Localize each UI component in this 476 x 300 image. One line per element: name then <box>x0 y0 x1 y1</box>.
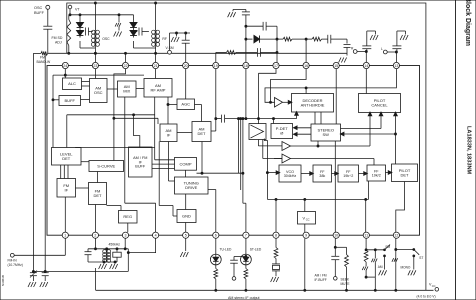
wire AM IF bottom to TUNING DRIVE <box>169 142 175 182</box>
wire AM OSC to AM MIX <box>107 88 118 90</box>
svg-text:14: 14 <box>364 64 368 68</box>
svg-text:24: 24 <box>63 64 67 68</box>
wire varactor supply rail <box>70 14 134 16</box>
pin 6 <box>213 232 219 238</box>
wire pin17 route to quad column <box>259 69 277 119</box>
wire pin4 internal <box>125 203 156 232</box>
svg-text:13: 13 <box>394 64 398 68</box>
block FM IF <box>57 179 76 198</box>
svg-text:DET: DET <box>62 156 71 161</box>
wire limiter to amp A2 <box>258 140 282 146</box>
capacitor at OSC BUFF <box>43 9 52 53</box>
svg-text:Block Diagram: Block Diagram <box>464 0 471 46</box>
wire FM DET to REG <box>107 206 122 211</box>
pin 9 <box>303 232 309 238</box>
block AM DET <box>192 122 211 142</box>
svg-text:S-CURVE: S-CURVE <box>97 163 115 168</box>
block P-DET <box>271 124 293 139</box>
wire S-CURVE to FM DET <box>97 172 99 183</box>
capacitor pin18 to pin17 chain <box>246 22 278 63</box>
wire stereo sw right feed 2 <box>341 132 397 135</box>
capacitor branch AM <box>366 250 383 291</box>
OSC BUFF terminal <box>34 5 50 15</box>
TU-LED <box>210 238 232 291</box>
wire LEVEL DET to FM IF triple <box>61 165 68 179</box>
wire decoder top feed <box>305 87 307 94</box>
svg-text:SEEK: SEEK <box>341 278 350 282</box>
svg-text:(4.0 to 8.0 V): (4.0 to 8.0 V) <box>417 294 436 298</box>
block AM IF <box>160 124 177 142</box>
svg-text:RF AMP: RF AMP <box>151 87 166 92</box>
wire pin21 to AM RF AMP <box>155 69 157 79</box>
450kHz detector coil T3 <box>103 248 111 263</box>
svg-text:6: 6 <box>215 234 217 238</box>
svg-text:10: 10 <box>334 234 338 238</box>
wire decoder to stereo sw <box>315 112 321 124</box>
svg-text:IF: IF <box>167 132 171 137</box>
pin 1 <box>62 232 68 238</box>
svg-text:19k/2: 19k/2 <box>372 173 381 177</box>
trimmer capacitor FM-IN <box>28 271 37 288</box>
svg-text:DET: DET <box>401 172 410 177</box>
wire pin9 to bus <box>304 238 306 291</box>
pin 13 <box>393 62 399 68</box>
svg-text:CANCEL: CANCEL <box>371 103 388 108</box>
VT terminal <box>68 5 80 16</box>
wire FF3 bottom <box>368 181 370 199</box>
svg-text:20: 20 <box>184 64 188 68</box>
capacitor stereo IF tap <box>230 256 247 281</box>
svg-text:L: L <box>381 47 383 51</box>
svg-text:9: 9 <box>305 234 307 238</box>
svg-text:BUFF: BUFF <box>34 11 45 15</box>
svg-text:TU-LED: TU-LED <box>220 248 233 252</box>
wire pin16 route to amp A1 <box>271 69 307 103</box>
block AM MIX <box>118 81 137 97</box>
svg-text:ALC: ALC <box>68 81 76 86</box>
pin 12 <box>393 232 399 238</box>
svg-text:AM: AM <box>378 265 383 269</box>
left margin tiny vertical text <box>1 275 5 286</box>
wire AGC to AM DET <box>195 105 202 122</box>
block GND <box>177 210 196 223</box>
wire P-DET top feed <box>273 119 275 124</box>
block TUNING DRIVE <box>175 177 209 194</box>
block LEVEL DET <box>52 148 82 166</box>
wire AM IF left feed <box>113 117 158 124</box>
wire pin11 internal <box>365 199 367 232</box>
svg-text:BUFF: BUFF <box>65 98 76 103</box>
svg-text:16: 16 <box>304 64 308 68</box>
svg-text:450kHz: 450kHz <box>109 242 121 246</box>
Vcc terminal bottom right <box>417 283 439 299</box>
block S-CURVE <box>89 161 124 172</box>
block AM RF AMP <box>144 79 172 98</box>
block VCC <box>298 212 316 225</box>
svg-text:AM / FM: AM / FM <box>315 274 327 278</box>
FM SD ADJ potentiometer <box>52 15 71 54</box>
block AGC <box>177 99 195 110</box>
wire pin22 to S-CURVE long route <box>114 69 126 161</box>
capacitor pin19 chain to pin17 <box>257 48 277 57</box>
wire quad box feed <box>258 119 260 124</box>
svg-text:BUFF: BUFF <box>135 165 146 169</box>
wire feedback into COMP <box>155 148 175 160</box>
svg-text:23: 23 <box>93 64 97 68</box>
coupling capacitor FM RF tank <box>133 28 149 36</box>
svg-text:VT: VT <box>75 8 80 12</box>
block REG <box>119 211 138 224</box>
varactor diodes D3 D4 (FM RF) <box>130 15 137 48</box>
wire IF BUFF to COMP upper <box>152 163 175 165</box>
resistor pin16 to cap <box>306 37 321 41</box>
wire FM DET to pin2 <box>95 205 97 233</box>
wire AM DET bottom drop <box>201 142 203 175</box>
trimmer capacitor and ground near OSC <box>114 15 122 37</box>
svg-text:4: 4 <box>155 234 157 238</box>
svg-text:5: 5 <box>185 234 187 238</box>
wire IF BUFF top dogleg <box>133 114 140 147</box>
wire VCC box feeds <box>304 199 306 232</box>
pin 10 <box>333 232 339 238</box>
wire pin19 column <box>211 69 217 131</box>
svg-text:FM: FM <box>40 55 45 59</box>
SEEK MUTE resistor <box>335 247 350 291</box>
wire pin4 external route <box>127 238 155 271</box>
svg-text:FM-IN: FM-IN <box>8 258 18 262</box>
wire pin22 stub <box>125 53 127 62</box>
wire ALC to AM OSC <box>82 82 90 87</box>
wire pin11 down <box>365 238 367 250</box>
wire pin13 route audio <box>265 69 396 104</box>
capacitor FM-IN <box>40 271 49 287</box>
coupling capacitor FM OSC tank <box>79 28 93 36</box>
capacitor V-SM to pin 20 <box>182 33 190 62</box>
svg-text:SW: SW <box>323 132 330 137</box>
pin 17 <box>273 62 279 68</box>
svg-text:LA1833N, 1833NM: LA1833N, 1833NM <box>466 126 472 175</box>
block PILOT CANCEL <box>359 94 401 113</box>
wire GND box to pin5 <box>185 223 187 233</box>
svg-text:IF-BUFF: IF-BUFF <box>315 278 327 282</box>
wire BUFF left to level det column <box>52 75 59 147</box>
AM stereo IF output label <box>228 296 260 300</box>
L output terminal <box>381 47 397 63</box>
wire vertical x240 <box>240 118 242 190</box>
wire AM MIX to AM RF AMP <box>136 88 144 90</box>
capacitor branch pin12 <box>392 258 398 262</box>
svg-text:OSC: OSC <box>102 37 110 41</box>
decoder drive amp A3 <box>282 154 291 163</box>
wire TUNING DRIVE to pin6 <box>208 190 216 233</box>
ground below pin5 <box>180 238 188 257</box>
block COMP <box>175 158 197 171</box>
wire AM IF to AM DET <box>177 132 192 134</box>
pin 19 <box>213 62 219 68</box>
block ALC <box>63 78 82 90</box>
FM RF coil T2 <box>152 2 167 62</box>
switch rail pin11 <box>366 249 384 251</box>
pin 23 <box>92 62 98 68</box>
svg-text:AGC: AGC <box>181 102 190 107</box>
svg-text:3: 3 <box>125 234 127 238</box>
svg-text:FM SD: FM SD <box>52 36 63 40</box>
svg-text:BAND-W: BAND-W <box>37 60 52 64</box>
wire COMP to TUNING DRIVE <box>185 170 187 177</box>
svg-text:18: 18 <box>244 64 248 68</box>
wire pin24 to ALC <box>64 69 66 78</box>
wire pin12 down <box>395 238 397 291</box>
resistor pin19 top chain <box>216 51 257 63</box>
wire FF1 to FF2 <box>332 172 339 175</box>
output capacitor L with ground <box>392 31 408 52</box>
wire FM IF to pin1 <box>64 197 66 232</box>
svg-text:N3083B: N3083B <box>1 275 5 286</box>
resistor branch pin11 <box>362 250 368 278</box>
svg-text:19: 19 <box>214 64 218 68</box>
svg-text:7: 7 <box>245 234 247 238</box>
svg-text:REG: REG <box>123 214 132 219</box>
wire OSC tank bottom <box>80 47 95 49</box>
capacitor to de-emphasis node <box>322 35 348 44</box>
pin 11 <box>363 232 369 238</box>
pin 21 <box>153 62 159 68</box>
block AM/FM IF BUFF <box>129 147 153 177</box>
svg-text:DRIVE: DRIVE <box>185 185 198 190</box>
svg-text:RF: RF <box>162 37 167 41</box>
wire pin20 to AGC <box>185 69 187 99</box>
pin 24 <box>62 62 68 68</box>
svg-text:IF: IF <box>64 187 68 192</box>
FM BAND-W resistor <box>37 52 52 64</box>
ST-LED <box>241 238 262 291</box>
block FM DET <box>89 183 107 205</box>
450kHz label <box>109 242 121 246</box>
wire amp A3 long run <box>291 159 375 166</box>
wire stereo sw to pin10 <box>334 141 336 232</box>
svg-text:ANTI-BIRDIE: ANTI-BIRDIE <box>301 102 325 107</box>
svg-text:MUTE: MUTE <box>341 282 350 286</box>
wire TUNING DRIVE to GND box <box>185 194 187 210</box>
wire AM MIX down long vertical <box>124 97 126 203</box>
wire AM RF AMP to AGC and AM IF <box>167 97 177 124</box>
capacitor and ground at pin 15 node <box>339 39 351 62</box>
svg-text:CC: CC <box>306 218 310 222</box>
wire vertical x238 <box>238 118 240 174</box>
wire pin8 internal <box>275 199 277 232</box>
FM-IN terminal <box>8 238 66 266</box>
wire pin10 down <box>334 238 336 256</box>
svg-text:AM stereo IF output: AM stereo IF output <box>228 296 260 300</box>
wire FM BAND-W left drop <box>33 53 41 271</box>
wire pin14 to pilot cancel <box>365 69 367 94</box>
wire PLL bottom run <box>267 198 368 200</box>
wire stereo sw right feed 1 <box>341 112 383 128</box>
svg-text:DET: DET <box>94 193 103 198</box>
page column separator line <box>455 0 457 300</box>
switch rail pin12 <box>396 249 414 251</box>
svg-text:OSC: OSC <box>94 90 103 95</box>
block STEREO SW <box>311 124 341 141</box>
block PILOT DET <box>392 164 418 182</box>
svg-text:8: 8 <box>275 234 277 238</box>
wire decoder bottom arrow <box>295 112 298 119</box>
decoupling capacitor with ground at pin 18 <box>228 10 250 63</box>
wire VCO to FF1 <box>301 172 313 175</box>
svg-text:ST: ST <box>419 256 423 260</box>
wire IF BUFF to COMP lower <box>152 167 175 169</box>
block AM OSC <box>90 79 108 103</box>
svg-text:21: 21 <box>154 64 158 68</box>
pin 5 <box>183 232 189 238</box>
pin 18 <box>243 62 249 68</box>
block FF 38k <box>313 165 332 182</box>
svg-text:2: 2 <box>94 234 96 238</box>
block BUFF <box>59 96 81 106</box>
wire FF2 to FF3 <box>359 172 368 175</box>
pin 16 <box>303 62 309 68</box>
pin 4 <box>153 232 159 238</box>
wire FF3 to PILOT DET <box>386 171 392 174</box>
block VCO 304kHz <box>279 165 301 182</box>
svg-text:GND: GND <box>182 213 191 218</box>
block FF 19k/2 first <box>338 165 359 182</box>
svg-text:OSC: OSC <box>34 6 42 10</box>
pin 8 <box>273 232 279 238</box>
wire inner rail y75 <box>53 74 144 76</box>
svg-text:11: 11 <box>364 234 368 238</box>
svg-text:19k÷2: 19k÷2 <box>343 174 353 178</box>
resistor pin17 to pin16 <box>277 37 307 41</box>
svg-text:22: 22 <box>124 64 128 68</box>
svg-text:DET: DET <box>198 131 207 136</box>
wire P-DET to VCO loop <box>264 139 279 200</box>
wire sw clock tap <box>317 141 319 147</box>
output capacitor R with ground <box>362 31 378 52</box>
limiter amp box <box>249 124 266 140</box>
varactor diodes D1 D2 (FM OSC) <box>77 15 84 48</box>
wire pin23 to AM OSC <box>94 69 96 79</box>
pin 14 <box>363 62 369 68</box>
anti-birdie buffer amp A1 <box>275 98 283 108</box>
wire comp vertical x242 <box>243 119 246 233</box>
wire amp A2 to pilot cancel <box>291 112 372 146</box>
wire REG to pin3 <box>127 223 129 232</box>
pin 20 <box>183 62 189 68</box>
wire pin16 top stub <box>305 39 307 62</box>
vertical part number text LA1833N, 1833NM <box>466 126 472 175</box>
wire AM RF AMP feedback loop <box>67 97 155 148</box>
decoder drive amp A2 <box>282 142 291 151</box>
pin 15 <box>333 62 339 68</box>
wire IF coupling capacitor row <box>216 115 297 123</box>
switch ST <box>401 249 424 276</box>
wire COMP right run <box>197 172 244 174</box>
wire BUFF to AM OSC <box>81 99 90 101</box>
wire 450kHz rail <box>88 248 128 250</box>
V-SM terminal <box>166 32 191 54</box>
capacitor AM/FM IF-BUFF <box>315 256 340 282</box>
wire amp A1 to decoder <box>283 101 292 104</box>
FM OSC coil T1 <box>91 2 110 62</box>
svg-text:MIX: MIX <box>123 89 130 94</box>
svg-text:304kHz: 304kHz <box>284 174 297 178</box>
svg-text:17: 17 <box>274 64 278 68</box>
svg-text:1: 1 <box>64 234 66 238</box>
block DECODER ANTI-BIRDIE <box>292 94 334 113</box>
wire bottom supply bus <box>96 268 434 290</box>
svg-text:ST-LED: ST-LED <box>250 248 262 252</box>
wire pin2 down <box>95 238 97 249</box>
wire amp A3 input <box>274 158 282 160</box>
svg-text:12: 12 <box>394 234 398 238</box>
switch FM <box>379 245 391 276</box>
R output terminal <box>351 46 367 62</box>
wire LEVEL DET top right run <box>75 147 155 149</box>
wire LEVEL DET to S-CURVE <box>81 161 89 163</box>
wire FM BAND-W right drop <box>44 53 46 271</box>
wire pin18 column <box>245 69 247 119</box>
resistor and resonator below pin8 <box>271 238 280 282</box>
svg-text:CC: CC <box>432 284 436 288</box>
pin 7 <box>243 232 249 238</box>
IC boundary box <box>47 66 420 236</box>
varicap symbol between pin18 and pin17 <box>246 36 277 43</box>
vertical page header text Block Diagram <box>464 0 471 46</box>
ceramic resonator 450kHz <box>113 248 121 262</box>
svg-text:MONO: MONO <box>401 266 411 270</box>
svg-text:(10.7MHz): (10.7MHz) <box>8 263 23 267</box>
svg-text:COMP: COMP <box>180 161 192 166</box>
pin 22 <box>122 62 128 68</box>
wire pilot det to pin12 <box>396 182 405 233</box>
wire stereo sw to P-DET arrows <box>294 126 312 136</box>
svg-text:Ø: Ø <box>280 131 283 136</box>
pin 2 <box>92 232 98 238</box>
svg-text:38k: 38k <box>319 174 325 178</box>
wire pin15 to stereo sw <box>335 69 337 124</box>
wire RF tank bottom <box>134 47 156 49</box>
ground near V-SM <box>171 33 179 42</box>
block FF 19k/2 second <box>367 165 386 181</box>
wire pilot cancel to pilot det <box>394 112 397 164</box>
wire pin3 down <box>124 238 126 249</box>
svg-text:ADJ: ADJ <box>55 41 62 45</box>
svg-text:15: 15 <box>334 64 338 68</box>
wire FM IF to FM DET <box>76 187 89 189</box>
wire outer VT-Vcc rail frame <box>67 3 426 290</box>
capacitor 450kHz left <box>85 249 118 262</box>
wire FM-IN tank bus <box>32 270 128 272</box>
pin 3 <box>122 232 128 238</box>
grounds 450kHz <box>99 261 118 269</box>
wire FM ground rail <box>48 52 347 54</box>
wire limiter to amp A3 <box>263 140 282 159</box>
wire AM IF to GND box route <box>159 142 177 217</box>
